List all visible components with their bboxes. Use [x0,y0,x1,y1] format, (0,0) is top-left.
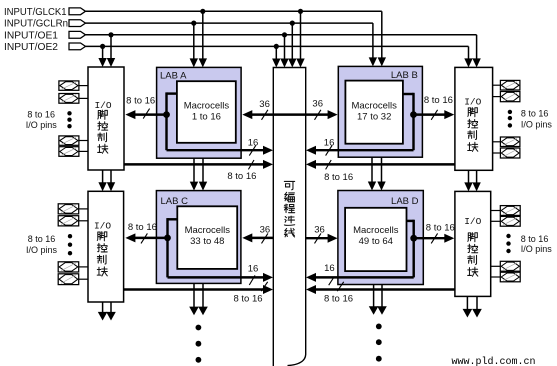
svg-text:8 to 16: 8 to 16 [227,171,256,182]
svg-text:8 to 16: 8 to 16 [521,109,549,119]
svg-text:8 to 16: 8 to 16 [426,222,455,233]
I/O cell UL-2 [59,94,79,104]
I/O control block upper-left [88,67,124,170]
svg-text:8 to 16: 8 to 16 [324,294,353,305]
wire LAB C outputs [193,283,195,308]
bus slash lower-right 8-16 [431,233,437,243]
bus slash upper-left 36 [262,110,268,120]
wire GCLRn drop to PIA [291,23,293,61]
ellipsis below LAB C [196,325,202,331]
wire GLCK1 drop to LAB B [381,11,383,60]
I/O cell LR-2 [500,216,520,226]
bus slash left 16 [249,146,255,156]
svg-text:36: 36 [314,225,325,236]
svg-text:16: 16 [248,137,259,148]
svg-text:INPUT/OE2: INPUT/OE2 [4,42,58,53]
svg-text:LAB A: LAB A [160,70,187,81]
LAB B local bus [403,93,414,95]
bus slash upper-right 8-16 [431,110,437,120]
wire OE1 drop to I/O left [110,35,112,61]
wire LAB A to LAB C pair [193,158,195,184]
svg-text:8 to 16: 8 to 16 [424,95,453,106]
ellipsis I/O pins upper-right [508,110,512,114]
LAB C block [156,191,241,284]
ellipsis I/O pins lower-right [506,234,510,238]
wire OE1 drop to PIA [284,35,286,61]
junction GCLRn to LAB A [191,21,196,26]
LAB C bus junction [164,235,171,242]
LAB D bus junction [410,235,417,242]
svg-text:8 to 16: 8 to 16 [128,222,157,233]
junction OE1 to I/O left [108,32,113,37]
bus I/O lower-left to PIA 8-16 [124,288,264,290]
bus LAB A to I/O left 8-16 [135,113,167,115]
wire GCLRn drop to LAB B [372,23,374,60]
I/O control block lower-left [88,191,124,302]
junction GLCK1 to PIA [298,9,303,14]
I/O cell LR-3 [500,261,520,271]
svg-text:49 to 64: 49 to 64 [359,236,393,247]
wire I/O upper-left to lower-left pair [102,170,104,185]
svg-text:8 to 16: 8 to 16 [27,109,55,119]
wire GLCK1 drop to LAB A [202,11,204,60]
svg-text:I/O pins: I/O pins [26,245,58,255]
bus LAB C to I/O left 8-16 [135,237,168,239]
LAB B macrocells box [345,81,403,144]
bus PIA 36 to LAB C [252,237,273,239]
svg-text:INPUT/OE1: INPUT/OE1 [4,30,58,41]
input pin INPUT/GLCK1 [69,8,86,15]
LAB D block [338,191,423,285]
svg-text:1 to 16: 1 to 16 [192,111,221,122]
bus I/O upper-left to PIA 8-16 [124,163,264,165]
svg-text:I/O pins: I/O pins [521,120,553,130]
bus slash mid-left 8-16 [248,160,254,169]
I/O cell UR-3 [500,137,520,147]
input pin INPUT/OE1 [69,31,86,38]
bus slash mid-right 8-16 [326,160,332,169]
svg-text:16: 16 [324,137,335,148]
ellipsis I/O pins upper-left [67,111,71,115]
bus I/O upper-right to PIA 8-16 [316,163,455,165]
svg-text:8 to 16: 8 to 16 [28,234,56,244]
LAB A bus junction [163,111,170,118]
bus slash bottom-right 8-16 [337,282,343,291]
I/O cell UR-4 [500,148,520,158]
svg-text:Macrocells: Macrocells [184,101,230,112]
svg-text:I/O pins: I/O pins [26,120,58,130]
svg-text:I/O: I/O [464,216,481,227]
bus LAB D to I/O right 8-16 [413,237,445,239]
bus slash lower-left 36 [262,233,268,243]
wire OE2 drop to I/O left [102,46,104,60]
wire INPUT/OE1 horizontal [86,34,477,36]
I/O cell LR-4 [500,272,520,282]
wire I/O upper-right to lower-right pair [468,170,470,185]
wire GLCK1 drop to PIA [300,11,302,61]
svg-text:16: 16 [248,263,259,274]
LAB A macrocells box [177,81,236,143]
LAB A local bus [167,92,178,94]
svg-text:I/O: I/O [94,221,111,232]
wire INPUT/GLCK1 horizontal [86,10,382,12]
LAB D local bus [407,220,414,222]
junction GCLRn to PIA [290,21,295,26]
I/O cell LL-3 [58,262,78,272]
svg-text:LAB D: LAB D [391,196,419,207]
ellipsis I/O pins lower-left [68,234,72,238]
LAB A block [157,67,242,158]
PIA programmable interconnect column [273,68,305,366]
junction OE2 to I/O left [100,44,105,49]
I/O control block upper-right [455,67,493,170]
svg-text:INPUT/GCLRn: INPUT/GCLRn [4,19,68,30]
junction OE1 to PIA [282,32,287,37]
bus PIA 36 to LAB D [306,237,328,239]
I/O cell UL-1 [59,81,79,90]
bus slash bottom-left 8-16 [261,282,267,291]
bus I/O lower-right to PIA 8-16 [316,288,455,290]
wire LAB B to LAB D pair [371,157,373,184]
svg-text:INPUT/GLCK1: INPUT/GLCK1 [4,7,67,18]
input pin INPUT/GCLRn [69,20,86,27]
svg-text:8 to 16: 8 to 16 [324,172,353,183]
ellipsis below LAB D [376,324,382,330]
I/O cell LL-2 [58,216,78,226]
bus slash lower-right 36 [315,233,321,243]
bus slash right 16 [326,146,332,156]
wire OE2 drop to PIA [275,46,277,61]
LAB D macrocells box [345,208,406,271]
I/O cell LR-1 [500,206,520,216]
I/O cell UR-2 [500,92,520,102]
svg-text:36: 36 [259,99,270,110]
input pin INPUT/OE2 [69,43,86,50]
I/O cell LL-1 [58,204,78,214]
svg-text:Macrocells: Macrocells [351,101,397,112]
svg-text:36: 36 [312,99,323,110]
wire OE1 drop to I/O right [476,35,478,61]
PIA label 可编程连线 [284,181,294,189]
bus slash bottom-right 16 [329,277,334,285]
svg-text:Macrocells: Macrocells [353,225,399,236]
bus slash upper-left 8-16 [143,109,149,119]
svg-text:33 to 48: 33 to 48 [190,236,224,247]
LAB C local bus [168,218,178,220]
junction GLCK1 to LAB A [200,9,205,14]
wire GCLRn drop to LAB A [193,23,195,60]
wire LAB D outputs [373,285,375,308]
LAB B bus junction [410,111,417,118]
svg-text:16: 16 [324,263,335,274]
svg-text:I/O: I/O [94,100,111,111]
bus slash upper-right 36 [315,110,321,120]
wire INPUT/GCLRn horizontal [86,22,373,24]
wire I/O lower-right outputs [466,296,468,310]
svg-text:36: 36 [260,225,271,236]
svg-text:17 to 32: 17 to 32 [357,111,391,122]
svg-text:I/O: I/O [464,97,481,108]
svg-text:8 to 16: 8 to 16 [521,234,549,244]
wire OE2 drop to I/O right [468,46,470,61]
svg-text:LAB B: LAB B [391,70,418,81]
bus slash lower-left 8-16 [141,233,147,243]
I/O control block lower-right [455,191,491,296]
bus PIA 36 to LAB A and LAB B [252,113,328,115]
svg-text:8 to 16: 8 to 16 [126,96,155,107]
svg-text:Macrocells: Macrocells [185,225,231,236]
I/O cell UR-1 [500,80,520,90]
bus slash bottom-left 16 [249,275,255,285]
LAB B block [338,66,422,157]
LAB C macrocells box [177,206,237,269]
svg-text:www.pld.com.cn: www.pld.com.cn [452,356,536,366]
svg-text:8 to 16: 8 to 16 [233,294,262,305]
I/O cell UL-3 [59,136,79,145]
I/O cell LL-4 [58,274,78,285]
wire INPUT/OE2 horizontal [86,45,469,47]
I/O cell UL-4 [59,147,79,157]
wire I/O lower-left outputs [102,302,104,314]
junction OE2 to PIA [274,44,279,49]
svg-text:I/O pins: I/O pins [521,244,553,254]
bus LAB B to I/O right 8-16 [413,113,445,115]
